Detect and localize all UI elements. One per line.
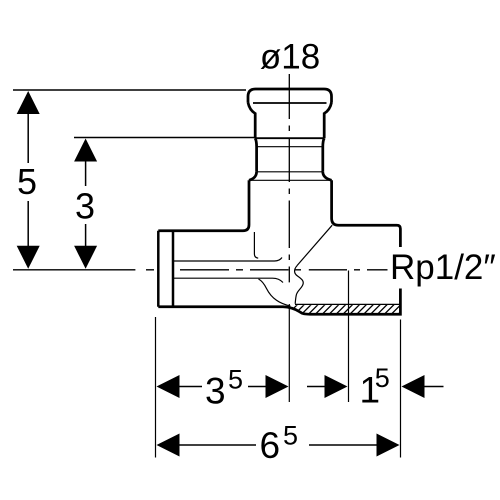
centerline vertical [288, 74, 290, 282]
press zone line 1 [255, 137, 324, 139]
dimension line D1 top [13, 89, 246, 91]
svg-text:3: 3 [205, 371, 226, 412]
svg-text:ø18: ø18 [260, 37, 320, 76]
body left bead [158, 231, 173, 307]
body bottom edge and outlet bottom [158, 289, 400, 315]
dimension 3 vertical [74, 139, 97, 269]
extension line left [155, 317, 157, 458]
svg-text:3: 3 [75, 186, 95, 227]
extension line right [400, 320, 402, 458]
press zone walls [255, 138, 324, 172]
svg-text:5: 5 [375, 363, 390, 393]
extension line center [288, 304, 290, 402]
bore line A [174, 258, 282, 262]
section diagonal [297, 225, 332, 265]
svg-text:Rp1/2″: Rp1/2″ [390, 248, 496, 287]
funnel curve [259, 279, 291, 306]
svg-text:5: 5 [283, 420, 298, 450]
socket right wall into outlet top edge [332, 180, 401, 247]
bead bottom line [253, 102, 327, 104]
dimension 15 [307, 363, 444, 411]
bore line B [174, 278, 283, 282]
dimension 5 vertical [17, 91, 40, 269]
flare walls [249, 172, 332, 181]
centerline horizontal [13, 269, 388, 271]
dimension 65 [157, 420, 400, 466]
top socket bead [248, 89, 332, 103]
hatch strip top line [295, 303, 400, 305]
socket inner wall left [254, 232, 258, 258]
thread depth line [348, 271, 350, 403]
dimension 35 [157, 365, 289, 412]
svg-text:6: 6 [260, 425, 281, 466]
svg-text:5: 5 [228, 365, 243, 395]
press zone line 2 [257, 146, 323, 148]
section wavy break [295, 266, 304, 304]
svg-text:5: 5 [17, 161, 37, 202]
flare line bottom [249, 179, 332, 181]
dimension line D2 [74, 137, 254, 139]
flare line top [257, 171, 323, 173]
socket left wall into body top edge [158, 180, 249, 231]
socket neck taper [248, 103, 332, 139]
